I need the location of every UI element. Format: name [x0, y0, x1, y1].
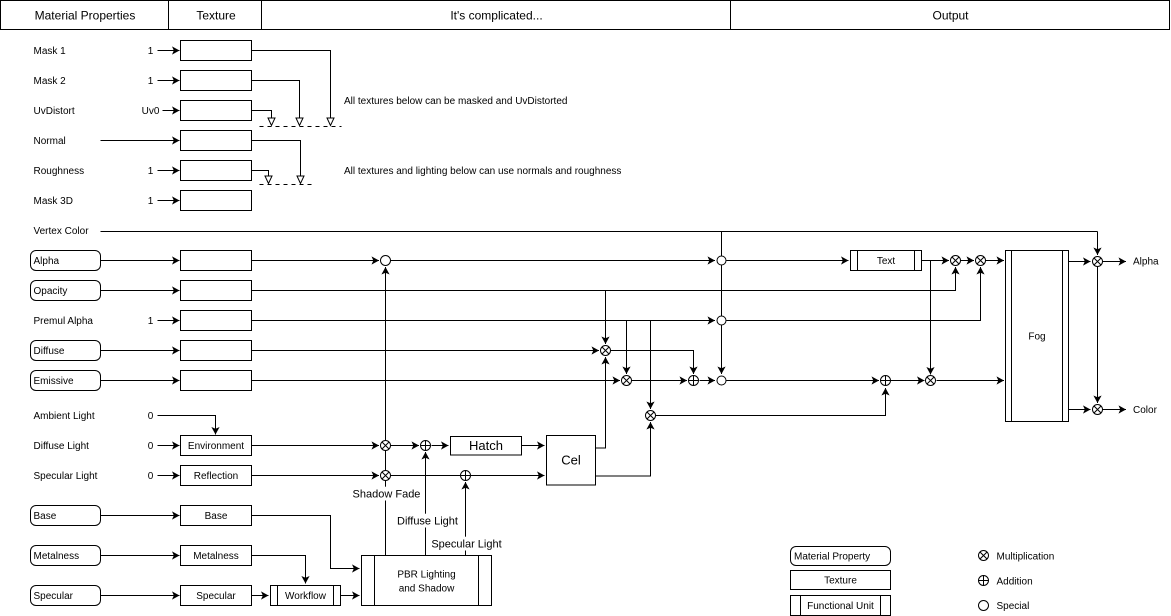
svg-text:1: 1 [148, 166, 154, 177]
svg-text:Specular: Specular [196, 591, 236, 602]
svg-text:Metalness: Metalness [34, 551, 80, 562]
svg-text:and Shadow: and Shadow [399, 584, 455, 595]
svg-text:Color: Color [1133, 405, 1158, 416]
svg-text:Material Property: Material Property [794, 552, 870, 563]
svg-text:Metalness: Metalness [193, 551, 239, 562]
svg-text:UvDistort: UvDistort [34, 106, 75, 117]
svg-text:Multiplication: Multiplication [997, 552, 1055, 563]
svg-text:Texture: Texture [824, 576, 857, 587]
svg-text:Cel: Cel [561, 453, 581, 468]
svg-text:Addition: Addition [997, 577, 1033, 588]
svg-text:Vertex Color: Vertex Color [34, 226, 90, 237]
svg-text:Functional Unit: Functional Unit [807, 601, 874, 612]
svg-text:Base: Base [34, 511, 57, 522]
svg-text:1: 1 [148, 316, 154, 327]
svg-text:1: 1 [148, 76, 154, 87]
svg-text:Base: Base [205, 511, 228, 522]
svg-text:Diffuse: Diffuse [34, 346, 65, 357]
svg-text:0: 0 [148, 441, 154, 452]
svg-text:Environment: Environment [188, 441, 244, 452]
svg-text:1: 1 [148, 196, 154, 207]
svg-text:Diffuse Light: Diffuse Light [34, 441, 90, 452]
svg-text:Workflow: Workflow [285, 591, 327, 602]
svg-text:All textures below can be mask: All textures below can be masked and UvD… [344, 96, 567, 107]
svg-text:0: 0 [148, 471, 154, 482]
svg-text:Mask 2: Mask 2 [34, 76, 67, 87]
svg-text:Specular: Specular [34, 591, 74, 602]
svg-text:Alpha: Alpha [34, 256, 60, 267]
svg-text:Reflection: Reflection [194, 471, 238, 482]
svg-text:Text: Text [877, 256, 896, 267]
svg-text:Premul Alpha: Premul Alpha [34, 316, 94, 327]
svg-text:Specular Light: Specular Light [431, 538, 501, 550]
svg-text:Texture: Texture [196, 9, 236, 23]
svg-text:Fog: Fog [1028, 332, 1045, 343]
svg-text:Normal: Normal [34, 136, 66, 147]
svg-text:Shadow Fade: Shadow Fade [353, 488, 421, 500]
svg-text:It's complicated...: It's complicated... [450, 9, 542, 23]
svg-text:Hatch: Hatch [469, 438, 503, 453]
svg-text:All textures and lighting belo: All textures and lighting below can use … [344, 166, 621, 177]
svg-text:Diffuse Light: Diffuse Light [397, 515, 458, 527]
svg-text:Mask 1: Mask 1 [34, 46, 67, 57]
svg-text:Special: Special [997, 601, 1030, 612]
svg-text:Ambient Light: Ambient Light [34, 411, 95, 422]
svg-text:Material Properties: Material Properties [35, 9, 136, 23]
svg-text:Uv0: Uv0 [142, 106, 160, 117]
svg-text:Output: Output [932, 9, 969, 23]
svg-text:Emissive: Emissive [34, 376, 74, 387]
svg-text:Roughness: Roughness [34, 166, 85, 177]
svg-text:1: 1 [148, 46, 154, 57]
svg-text:Opacity: Opacity [34, 286, 68, 297]
svg-text:Specular Light: Specular Light [34, 471, 98, 482]
svg-text:0: 0 [148, 411, 154, 422]
svg-text:Alpha: Alpha [1133, 257, 1159, 268]
svg-text:Mask 3D: Mask 3D [34, 196, 73, 207]
svg-text:PBR Lighting: PBR Lighting [397, 570, 455, 581]
